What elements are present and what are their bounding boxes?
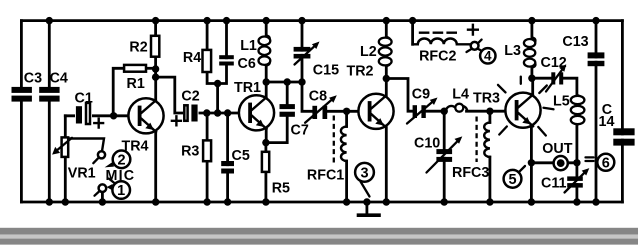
junction TR4 emitter bottom rail <box>152 198 159 205</box>
wire RFC2 feed <box>411 21 414 45</box>
wire C13 branch <box>595 21 598 202</box>
svg-text:VR1: VR1 <box>68 166 96 182</box>
wire C7 top <box>286 82 289 104</box>
plus sign C2 <box>172 116 181 125</box>
wire TR4 emitter <box>154 132 157 202</box>
svg-text:R3: R3 <box>181 144 199 160</box>
junction C10 bottom rail <box>441 198 448 205</box>
wire mic input node line VR1 branch <box>64 116 67 202</box>
capacitor C4 <box>39 87 59 102</box>
wire C15 node down to C8 <box>302 82 312 111</box>
wire R3 branch <box>206 113 209 202</box>
junction MIC pin1 bottom rail <box>99 198 106 205</box>
svg-text:L2: L2 <box>360 44 377 60</box>
svg-text:C3: C3 <box>24 71 42 87</box>
junction C15 top rail <box>298 17 305 24</box>
wire L1 branch <box>265 21 268 82</box>
plus sign RFC2 <box>468 25 478 35</box>
svg-text:6: 6 <box>602 156 610 172</box>
junction C5 bottom rail <box>224 198 231 205</box>
svg-text:2: 2 <box>117 153 125 169</box>
capacitor C13 <box>588 52 605 66</box>
wire R1 right lead <box>146 67 156 70</box>
svg-text:1: 1 <box>117 183 125 199</box>
svg-text:C13: C13 <box>562 34 588 50</box>
svg-text:RFC1: RFC1 <box>307 168 344 184</box>
circled 1 <box>107 179 130 200</box>
transistor TR1 <box>239 95 274 130</box>
jack OUT <box>554 156 568 170</box>
svg-text:5: 5 <box>508 172 516 188</box>
svg-text:TR2: TR2 <box>347 64 374 80</box>
wire L3 branch <box>532 21 551 79</box>
transistor TR3 <box>505 93 540 128</box>
resistor R5 <box>262 152 269 172</box>
wire node to C2 <box>156 77 184 113</box>
wire C8 to TR2 base <box>327 110 365 113</box>
node C10 top junction <box>441 108 448 115</box>
inductor L2 <box>379 37 392 66</box>
svg-text:L3: L3 <box>504 43 521 59</box>
wire L4 to TR3 base <box>467 110 512 113</box>
wire right edge branch C14 <box>621 21 624 202</box>
circled 4 <box>467 40 496 64</box>
wire RFC3 branch <box>488 111 491 202</box>
wire L2 node to C9 <box>386 79 412 112</box>
capacitor C2 electrolytic <box>183 103 199 123</box>
trimmer C8 <box>305 95 337 122</box>
wire C15 branch <box>301 21 304 82</box>
wire OUT line <box>531 161 577 164</box>
inductor RFC1 <box>334 116 347 166</box>
node OUT tap junction <box>528 159 535 166</box>
svg-text:C9: C9 <box>412 86 430 102</box>
node RFC3 top junction <box>486 108 493 115</box>
inductor L1 <box>259 36 271 66</box>
node R1 R2 junction <box>152 65 159 72</box>
junction TR2 emitter bottom rail <box>383 198 390 205</box>
junction R4 top rail <box>203 17 210 24</box>
svg-text:R1: R1 <box>127 76 145 92</box>
capacitor C1 electrolytic <box>75 101 92 128</box>
wire MIC pin1 to ground <box>101 192 104 202</box>
transistor TR4 <box>128 98 163 133</box>
svg-text:14: 14 <box>599 114 615 130</box>
wire TR3 collector <box>531 78 534 97</box>
wire C6 branch <box>218 21 227 84</box>
node TR1 emitter junction <box>262 139 269 146</box>
wire R4 branch <box>207 21 218 84</box>
wire R2 branch from rail <box>154 21 157 78</box>
wire C4 branch <box>48 21 51 202</box>
wire C9 to L4 <box>425 110 447 113</box>
wire VR1 to MIC pin2 <box>66 139 104 152</box>
trimmer C15 <box>294 42 320 65</box>
inductor RFC2 <box>413 33 472 45</box>
wire RFC1 branch <box>345 111 348 202</box>
wire C10 branch <box>443 111 446 202</box>
capacitor C5 <box>221 161 234 174</box>
wire TR3 emitter to ground <box>530 127 533 203</box>
node C7 top junction <box>284 78 291 85</box>
circled 3 <box>355 163 374 197</box>
wire L2 branch <box>385 21 388 79</box>
node R4 C6 junction <box>214 80 221 87</box>
svg-text:OUT: OUT <box>542 141 572 157</box>
wire TR2 emitter <box>385 128 388 203</box>
svg-text:C5: C5 <box>232 148 250 164</box>
trimmer C9 <box>407 98 438 124</box>
mic connector pin 1 <box>95 184 107 195</box>
wire TR1 emitter to node <box>265 127 268 143</box>
junction RFC1 bottom rail <box>343 198 350 205</box>
node TR4 base junction <box>110 112 117 119</box>
svg-text:R2: R2 <box>129 39 147 55</box>
potentiometer VR1 <box>52 137 72 157</box>
svg-text:C1: C1 <box>75 90 93 106</box>
inductor L4 <box>446 104 467 112</box>
svg-text:C6: C6 <box>238 56 256 72</box>
node RFC1 top junction <box>343 108 350 115</box>
svg-text:R4: R4 <box>183 50 201 66</box>
junction C13 top rail <box>592 17 599 24</box>
svg-text:C8: C8 <box>309 88 327 104</box>
svg-text:4: 4 <box>484 49 492 64</box>
capacitor C6 <box>219 55 234 65</box>
trimmer C12 <box>546 64 566 91</box>
rays around TR3 <box>498 77 554 136</box>
wire C2 to TR1 base <box>196 112 244 115</box>
svg-text:3: 3 <box>360 166 368 182</box>
inductor L3 <box>524 38 535 68</box>
capacitor C3 <box>12 87 32 102</box>
circled 2 <box>105 151 131 169</box>
circled 6 <box>586 154 615 172</box>
junction R3 bottom rail <box>203 198 210 205</box>
wire C11 branch <box>576 163 579 202</box>
wire R1 left lead <box>113 68 124 116</box>
resistor R3 <box>203 140 211 161</box>
wire TR1 collector <box>265 82 268 99</box>
transistor TR2 <box>358 94 393 129</box>
junction ground bottom rail <box>363 198 370 205</box>
junction L2 top rail <box>383 17 390 24</box>
ground symbol <box>359 202 380 215</box>
wire L5 bottom <box>576 125 579 163</box>
junction C4 top rail <box>46 17 53 24</box>
inductor L5 <box>571 95 585 124</box>
svg-text:L1: L1 <box>240 38 257 54</box>
svg-text:R5: R5 <box>272 181 290 197</box>
junction C6 top rail <box>223 17 230 24</box>
junction VR1 bottom rail <box>62 198 69 205</box>
junction L3 top rail <box>528 17 535 24</box>
svg-text:C15: C15 <box>313 62 339 78</box>
junction L1 top rail <box>263 17 270 24</box>
node C15 bottom junction <box>298 78 305 85</box>
capacitor C14 <box>613 128 634 145</box>
trimmer C10 <box>427 136 463 172</box>
svg-text:TR3: TR3 <box>473 91 500 107</box>
junction R2 top rail <box>152 17 159 24</box>
svg-text:L4: L4 <box>452 86 469 102</box>
wire C12 to L5 <box>563 78 577 95</box>
wire TR2 collector <box>385 79 388 99</box>
wire left edge branch C3 <box>20 21 23 202</box>
svg-text:RFC3: RFC3 <box>452 165 489 181</box>
wire collector bus to C15 <box>266 81 302 84</box>
mic connector pin 2 <box>93 151 105 163</box>
junction C4 bottom rail <box>46 198 53 205</box>
svg-text:C4: C4 <box>50 71 68 87</box>
wire R5 to ground <box>264 143 267 202</box>
node TR4 collector junction <box>152 73 159 80</box>
wire R4 C6 node drop to base <box>216 84 219 114</box>
svg-text:RFC2: RFC2 <box>419 48 456 64</box>
wire bottom ground rail <box>21 201 622 204</box>
wire C5 branch <box>226 113 229 202</box>
junction RFC3 bottom rail <box>486 198 493 205</box>
junction R5 bottom rail <box>262 198 269 205</box>
inductor RFC3 <box>477 117 490 163</box>
resistor R1 <box>124 65 146 72</box>
junction C11 bottom rail <box>573 198 580 205</box>
node C5 top junction <box>224 109 231 116</box>
resistor R4 <box>203 50 212 72</box>
wire C1 input <box>65 114 134 117</box>
wire TR4 collector <box>154 77 157 101</box>
node TR2 collector junction <box>383 75 390 82</box>
svg-text:L5: L5 <box>553 93 570 109</box>
circled 5 <box>504 166 525 188</box>
junction TR3 emitter bottom rail <box>528 198 535 205</box>
capacitor C7 <box>280 104 295 117</box>
junction C13 bottom rail <box>592 198 599 205</box>
svg-text:TR4: TR4 <box>122 139 149 155</box>
svg-text:C7: C7 <box>291 123 309 139</box>
node C11 top junction <box>573 159 580 166</box>
svg-text:C2: C2 <box>181 88 199 104</box>
svg-text:C11: C11 <box>541 176 566 192</box>
node TR1 collector junction <box>263 78 270 85</box>
junction RFC2 top rail <box>409 17 416 24</box>
node R3 top junction <box>203 109 210 116</box>
plus sign C1 <box>94 119 103 128</box>
wire C7 bottom to emitter node <box>266 117 287 143</box>
svg-text:C10: C10 <box>414 135 440 151</box>
svg-text:C12: C12 <box>541 55 567 71</box>
wire top supply rail <box>21 19 622 22</box>
trimmer C11 <box>565 168 590 192</box>
svg-text:TR1: TR1 <box>234 80 261 96</box>
bottom gray divider bars <box>0 228 638 245</box>
node TR3 collector junction <box>528 75 535 82</box>
node R4 drop junction <box>214 109 221 116</box>
resistor R2 <box>151 36 159 57</box>
